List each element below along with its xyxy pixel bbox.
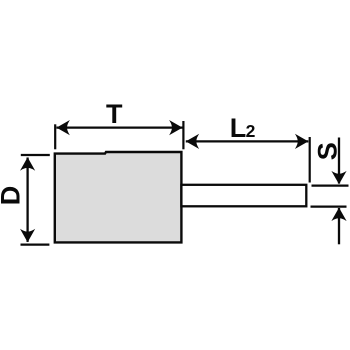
svg-text:L: L xyxy=(230,113,247,143)
tick line D bottom xyxy=(21,244,50,246)
dimension line T xyxy=(57,126,183,128)
extension line S bottom xyxy=(311,206,347,208)
svg-text:D: D xyxy=(0,186,26,206)
arrow S down xyxy=(331,171,346,184)
extension line left of T xyxy=(54,124,56,149)
arrow L2 right xyxy=(295,134,308,149)
wheel body (grinding cylinder) xyxy=(55,152,182,242)
arrow S up xyxy=(331,208,346,221)
svg-text:T: T xyxy=(106,99,123,129)
svg-text:2: 2 xyxy=(246,121,256,141)
arrow T left xyxy=(57,120,70,135)
extension line S top xyxy=(312,185,349,187)
arrow L2 left xyxy=(186,134,199,149)
arrow T right xyxy=(169,120,182,135)
svg-text:S: S xyxy=(313,142,343,160)
arrow D up xyxy=(20,157,35,170)
extension line right of T / left of L2 xyxy=(182,121,184,149)
dimension line D xyxy=(26,158,28,242)
extension line right of L2 xyxy=(309,137,311,183)
arrow D down xyxy=(20,229,35,242)
dimension stem S lower xyxy=(338,208,340,244)
dimension line L2 xyxy=(186,140,308,142)
shaft (spindle) xyxy=(181,185,306,207)
tick line D top xyxy=(21,154,50,156)
dimension stem S upper xyxy=(338,138,340,184)
